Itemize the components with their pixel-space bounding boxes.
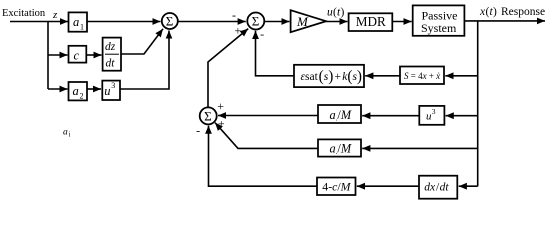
wire feedback drop from output <box>477 21 479 186</box>
svg-text:3: 3 <box>111 81 115 90</box>
svg-text:a: a <box>73 84 79 98</box>
svg-text:System: System <box>421 21 457 35</box>
wire S3 to S2 (up then diagonal) <box>208 29 248 108</box>
wire excitation input to a1 <box>10 21 68 23</box>
svg-text:Σ: Σ <box>252 14 260 29</box>
block dx/dt <box>419 176 457 199</box>
wire branch to c <box>48 54 68 56</box>
svg-text:a: a <box>63 128 68 138</box>
block u3 <box>102 81 120 100</box>
gain block a2 <box>69 82 88 100</box>
wire branch down from z node <box>47 22 49 90</box>
wire S box to epsilon-sat box <box>365 75 400 77</box>
svg-text:): ) <box>493 6 497 18</box>
wire dx/dt to 4-c/M <box>357 185 419 187</box>
svg-text:Response: Response <box>501 6 545 18</box>
svg-text:3: 3 <box>432 107 436 116</box>
svg-text:4-c/M: 4-c/M <box>322 179 351 193</box>
gain block c <box>69 46 87 63</box>
svg-text:a: a <box>73 15 79 29</box>
svg-text:dt: dt <box>106 58 116 70</box>
wire S2 to M <box>265 21 290 23</box>
wire 4-c/M to summer S3 <box>209 126 318 187</box>
wire epsilon-sat box to summer S2 <box>256 31 295 76</box>
block MDR <box>349 13 393 31</box>
gain block a2/M <box>318 105 361 123</box>
svg-text:dz: dz <box>105 41 116 53</box>
wire feedback bottom to dx/dt <box>459 185 478 187</box>
svg-text:εsat(s)+k(s): εsat(s)+k(s) <box>301 68 363 85</box>
wire feedback to S box <box>445 75 477 77</box>
wire S1 to S2 <box>178 21 246 23</box>
svg-text:Σ: Σ <box>166 14 174 29</box>
block Passive System <box>413 5 465 35</box>
wire M to MDR <box>326 21 347 23</box>
gain block a1 <box>69 12 88 31</box>
wire a2/M to summer S3 <box>218 115 318 117</box>
summer S2 <box>247 13 264 30</box>
svg-text:u: u <box>104 84 110 98</box>
svg-text:Σ: Σ <box>204 108 212 123</box>
block dz/dt <box>103 38 121 71</box>
block S=4x+xdot <box>400 67 444 85</box>
wire MDR to Passive System <box>392 21 411 23</box>
summer S1 <box>162 13 178 29</box>
svg-text:2: 2 <box>80 92 84 101</box>
wire dz/dt to summer S1 (diagonal) <box>121 29 163 54</box>
svg-text:Excitation: Excitation <box>2 8 46 19</box>
svg-text:z: z <box>52 9 58 21</box>
svg-text:M: M <box>296 14 309 29</box>
svg-text:1: 1 <box>80 23 84 32</box>
block u3 feedback <box>419 106 444 125</box>
summer S3 <box>200 107 217 124</box>
wire feedback to a1/M <box>362 147 478 149</box>
wire c to dz/dt <box>86 54 101 56</box>
svg-text:+: + <box>218 116 225 130</box>
svg-text:+: + <box>217 99 224 113</box>
block epsilon sat(s)+k(s) <box>294 65 364 87</box>
svg-text:MDR: MDR <box>356 14 386 29</box>
wire output x(t) <box>464 20 545 22</box>
wire a1/M to summer S3 (diagonal) <box>215 123 318 149</box>
wire u3 up to summer S1 <box>120 31 169 90</box>
svg-text:-: - <box>232 8 236 22</box>
svg-text:-: - <box>196 123 200 137</box>
wire a2 to u3 <box>87 88 101 90</box>
gain block a1/M <box>318 139 361 156</box>
svg-text:i: i <box>69 131 71 139</box>
svg-text:): ) <box>341 7 345 19</box>
svg-text:a./M: a./M <box>330 108 352 123</box>
svg-text:dt: dt <box>440 182 450 194</box>
wire a1 to summer S1 <box>87 21 161 23</box>
wire branch to a2 <box>48 88 68 90</box>
svg-text:c: c <box>74 49 80 63</box>
svg-text:dx: dx <box>424 182 436 194</box>
svg-text:-: - <box>260 27 264 41</box>
gain triangle M <box>291 10 327 32</box>
wire u3 feedback to a2/M <box>362 115 419 117</box>
svg-text:S = 4x + ẋ: S = 4x + ẋ <box>404 71 440 81</box>
wire feedback to u3 block <box>446 115 478 117</box>
svg-text:a./M: a./M <box>330 142 352 157</box>
gain block 4-c/M <box>317 178 356 196</box>
